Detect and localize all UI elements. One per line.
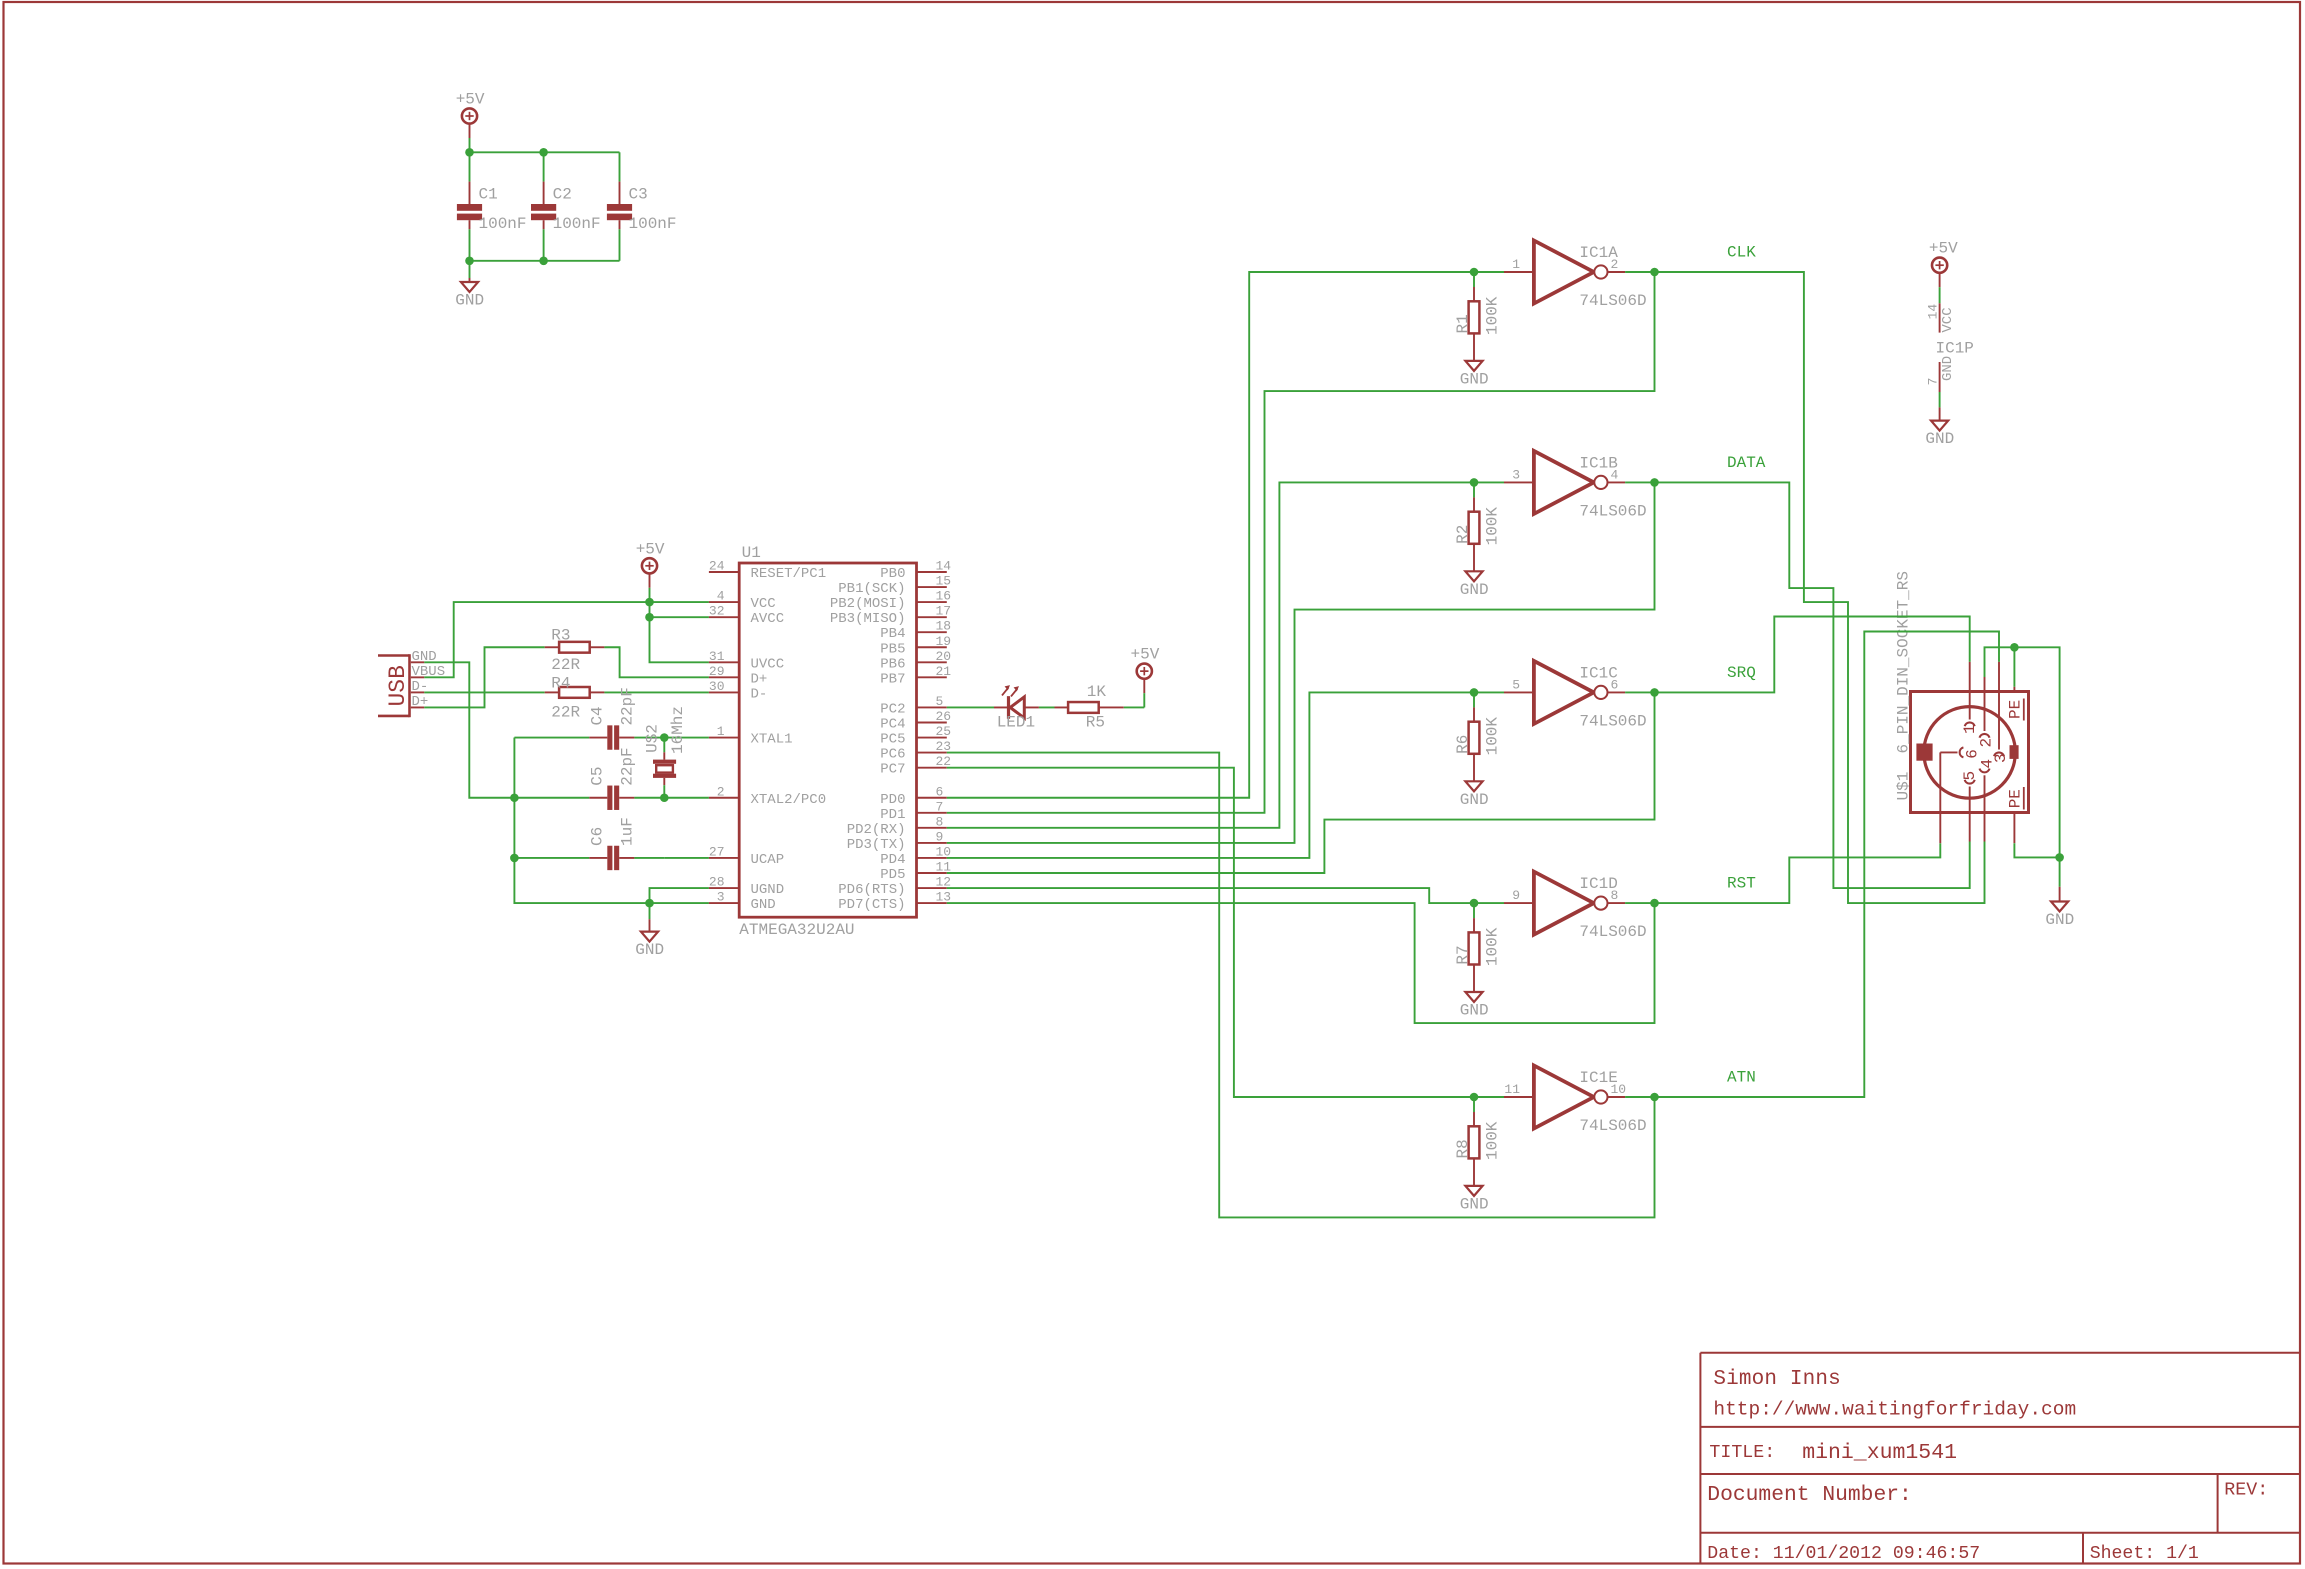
pin DIN6 stub [1939,813,1941,844]
node IC1A input junction [1470,268,1479,277]
svg-text:RESET/PC1: RESET/PC1 [751,566,827,582]
pin DIN PE bottom right [2006,787,2024,843]
svg-text:PB2(MOSI): PB2(MOSI) [830,596,906,612]
wire pin5 to LED [947,706,994,708]
wire USB D+ up to R3 [424,647,544,707]
wire PE bottom to gnd [2014,843,2059,857]
svg-text:SRQ: SRQ [1727,664,1756,682]
node junction AVCC [645,613,654,622]
node IC1A output junction [1650,268,1659,277]
svg-text:http://www.waitingforfriday.co: http://www.waitingforfriday.com [1713,1399,2076,1421]
resistor R1 100K ground [1460,361,1489,389]
wire DATA to DIN pin 5 [1655,482,1970,888]
svg-text:2: 2 [717,784,725,799]
node IC1B output junction [1650,478,1659,487]
svg-text:DATA: DATA [1727,454,1766,472]
ground symbol below MCU [635,932,664,960]
pin 28 UGND (left) [709,875,784,899]
node junction gnd rail at C5 row [510,793,519,802]
pin 24 RESET/PC1 (left) [709,559,826,583]
pin 22 PC7 (right) [880,754,951,778]
capacitor C4 22pF [514,687,664,750]
node IC1C output junction [1650,688,1659,697]
wire CLK to DIN pin 4 [1655,272,1985,903]
wire PD0 to IC1A input [947,272,1474,798]
resistor R6 100K [1454,692,1502,781]
svg-text:4: 4 [1978,759,1996,769]
svg-text:+5V: +5V [1929,240,1958,258]
connector U$1 6 PIN DIN_SOCKET_RS box [1895,571,2029,812]
svg-text:R8: R8 [1454,1139,1472,1158]
pin 10 PD4 (right) [880,844,951,868]
text sheet [2090,1544,2199,1564]
svg-text:PE: PE [2006,700,2024,719]
wire IC1C output sense to PD5 [947,692,1655,873]
pin 17 PB3(MISO) (right) [830,604,951,628]
pin 31 UVCC (left) [709,649,784,673]
resistor R8 100K ground [1460,1186,1489,1214]
wire IC1C input [1474,691,1504,693]
svg-text:27: 27 [709,844,725,859]
pin 6 PD0 (right) [880,784,947,808]
svg-text:1: 1 [1961,724,1979,734]
wire XTAL2 net to pin 2 [664,797,709,799]
resistor R7 100K ground [1460,992,1489,1020]
power IC1P VCC pin [1925,240,1958,333]
pin DIN3 stub [1998,662,2000,692]
svg-text:32: 32 [709,604,725,619]
wire gnd to PE top [2013,647,2015,686]
svg-text:VCC: VCC [1940,307,1956,332]
svg-text:28: 28 [709,875,725,890]
ground symbol cap bank [455,282,484,310]
text title label [1709,1443,1775,1463]
node junction +5V rail at C1 [465,148,474,157]
pin R5 left [1055,706,1069,708]
pin DIN4 stub [1984,813,1986,842]
svg-text:UCAP: UCAP [751,852,785,868]
pin 21 PB7 (right) [880,664,951,688]
svg-text:XTAL1: XTAL1 [751,732,793,748]
svg-text:Sheet: 1/1: Sheet: 1/1 [2090,1544,2199,1564]
resistor R2 100K [1454,482,1502,571]
wire IC1B input [1474,481,1504,483]
svg-text:R4: R4 [551,674,570,692]
wire IC1B output [1625,481,1654,483]
pin DIN 4 marker [1978,759,1996,813]
wire C1 to ground symbol [469,261,471,278]
op-amp inverter IC1D 74LS06D [1504,872,1647,942]
svg-text:PD1: PD1 [880,807,905,823]
svg-text:GND: GND [1925,430,1954,448]
svg-text:5: 5 [1961,771,1979,781]
svg-text:GND: GND [635,941,664,959]
resistor R4 22R [551,674,589,721]
pin gnd stub cap bank [469,278,471,282]
pin gnd stub mcu [649,919,651,931]
pin DIN PE top right [2006,687,2024,721]
svg-text:17: 17 [936,604,952,619]
svg-text:PD0: PD0 [880,792,905,808]
node IC1B input junction [1470,478,1479,487]
op-amp inverter IC1C 74LS06D [1504,661,1647,731]
svg-text:RST: RST [1727,875,1756,893]
svg-text:GND: GND [1940,356,1956,381]
op-amp inverter IC1A 74LS06D [1504,241,1647,311]
svg-text:74LS06D: 74LS06D [1579,502,1646,520]
svg-text:AVCC: AVCC [751,611,785,627]
pin R5 right [1099,706,1124,708]
svg-text:IC1B: IC1B [1579,454,1617,472]
wire IC1A output sense to PD1 [947,272,1655,813]
svg-text:100K: 100K [1483,507,1501,546]
pin 30 D- (left) [709,679,767,703]
svg-text:16Mhz: 16Mhz [669,706,687,754]
svg-text:100K: 100K [1483,1121,1501,1160]
resistor R6 100K ground [1460,781,1489,809]
wire UGND pin 28 [650,888,709,903]
pin DIN 5 marker [1961,771,1979,813]
svg-text:+5V: +5V [636,540,665,558]
svg-text:R7: R7 [1454,945,1472,964]
svg-text:5: 5 [1512,677,1520,692]
svg-text:PE: PE [2006,789,2024,808]
svg-text:U1: U1 [742,544,761,562]
pin USB GND [411,649,437,665]
wire XTAL1 net to pin 1 [664,737,709,739]
wire ATN to DIN pin 3 [1655,632,2000,1098]
svg-text:CLK: CLK [1727,244,1756,262]
pin 16 PB2(MOSI) (right) [830,589,951,613]
node junction XTAL1 at crystal [660,733,669,742]
svg-text:PC5: PC5 [880,732,905,748]
pin 3 GND (left) [709,890,776,914]
node junction DIN gnd bottom [2055,853,2064,862]
led LED1 [994,685,1039,731]
svg-text:100K: 100K [1483,296,1501,335]
svg-text:29: 29 [709,664,725,679]
svg-text:PB0: PB0 [880,566,905,582]
svg-text:LED1: LED1 [997,714,1035,732]
title block frame [1700,1353,2300,1564]
svg-text:Simon Inns: Simon Inns [1713,1368,1841,1391]
wire R3 to MCU D+ pin 29 [604,647,709,677]
pin 32 AVCC (left) [709,604,784,628]
pin 20 PB6 (right) [880,649,951,673]
pin DIN5 stub [1969,813,1971,842]
wire MCU GND down [649,903,651,919]
resistor R1 100K [1454,272,1502,361]
wire PD6 to IC1D input [947,888,1474,903]
svg-text:30: 30 [709,679,725,694]
svg-text:26: 26 [936,709,952,724]
svg-text:R5: R5 [1086,714,1105,732]
svg-text:11: 11 [1504,1082,1520,1097]
svg-text:PB3(MISO): PB3(MISO) [830,611,906,627]
net label CLK [1727,244,1756,262]
svg-text:9: 9 [936,829,944,844]
svg-text:PB6: PB6 [880,656,905,672]
wire +5V down to UVCC pin 31 [650,617,709,662]
pin DIN 1 marker [1961,692,1979,735]
svg-text:PB4: PB4 [880,626,905,642]
resistor R7 100K [1454,903,1502,992]
svg-text:GND: GND [1460,581,1489,599]
crystal U$2 16Mhz [644,706,687,798]
wire IC1C output [1625,691,1654,693]
ic U1 ATMEGA32U2AU box [739,544,916,939]
svg-text:R2: R2 [1454,525,1472,544]
svg-text:+5V: +5V [456,91,485,109]
pin USB VBUS [411,664,445,680]
ground symbol IC1P [1925,421,1954,449]
svg-text:R1: R1 [1454,314,1472,333]
wire ground rail left of crystal caps [514,738,709,904]
node junction GND rail at C1 [465,257,474,266]
pin 12 PD6(RTS) (right) [838,875,951,899]
wire IC1B output sense to PD3 [947,482,1655,843]
svg-text:20: 20 [936,649,952,664]
svg-text:PD5: PD5 [880,867,905,883]
svg-text:4: 4 [717,589,725,604]
wire PD4 to IC1C input [947,692,1474,858]
wire +5V to AVCC [650,602,709,617]
svg-text:C5: C5 [589,767,607,786]
svg-text:6: 6 [1963,749,1981,759]
net label SRQ [1727,664,1756,682]
svg-text:74LS06D: 74LS06D [1579,292,1646,310]
pin DIN 2 marker [1978,692,1996,748]
svg-text:GND: GND [1460,1195,1489,1213]
svg-text:1K: 1K [1087,683,1107,701]
svg-text:22R: 22R [551,703,580,721]
pin 2 XTAL2/PC0 (left) [709,784,826,808]
svg-text:C6: C6 [589,827,607,846]
svg-text:1: 1 [717,724,725,739]
svg-text:IC1C: IC1C [1579,664,1617,682]
svg-text:2: 2 [1978,738,1996,748]
wire UCAP net to pin 27 [664,857,709,859]
text title value [1802,1441,1957,1465]
svg-text:R6: R6 [1454,735,1472,754]
pin R3 left [545,646,559,648]
svg-text:GND: GND [1460,791,1489,809]
svg-text:XTAL2/PC0: XTAL2/PC0 [751,792,827,808]
ic IC1P label [1936,339,1974,357]
svg-text:Document Number:: Document Number: [1707,1483,1911,1507]
svg-text:IC1A: IC1A [1579,244,1618,262]
op-amp inverter IC1B 74LS06D [1504,451,1647,521]
net label ATN [1727,1069,1756,1087]
svg-text:74LS06D: 74LS06D [1579,712,1646,730]
svg-text:PD3(TX): PD3(TX) [847,837,906,853]
pin 26 PC4 (right) [880,709,951,733]
capacitor C2 100nF [531,152,601,260]
text author url [1713,1399,2076,1421]
svg-text:18: 18 [936,619,952,634]
svg-text:PB1(SCK): PB1(SCK) [838,581,905,597]
wire PD2 to IC1B input [947,482,1474,827]
pin DIN1 stub [1969,662,1971,692]
pin 29 D+ (left) [709,664,767,688]
svg-text:100K: 100K [1483,717,1501,756]
svg-text:UGND: UGND [751,882,785,898]
net label RST [1727,875,1756,893]
svg-text:100nF: 100nF [479,215,527,233]
resistor R8 100K [1454,1097,1502,1186]
wire DIN pin2 GND up [1985,647,2060,857]
op-amp inverter IC1E 74LS06D [1504,1066,1647,1136]
pin 15 PB1(SCK) (right) [838,574,951,598]
resistor R2 100K ground [1460,571,1489,599]
wire PC7 to IC1E input [947,768,1474,1097]
wire IC1D output [1625,902,1654,904]
wire bottom rail to GND [470,260,620,262]
power +5V symbol at MCU [636,540,665,602]
text document number [1707,1483,1911,1507]
pin 27 UCAP (left) [709,844,784,868]
svg-text:ATMEGA32U2AU: ATMEGA32U2AU [739,921,854,939]
node IC1E output junction [1650,1093,1659,1102]
svg-text:22pF: 22pF [619,747,637,785]
svg-text:6_PIN_DIN_SOCKET_RS: 6_PIN_DIN_SOCKET_RS [1895,571,1913,753]
pin 25 PC5 (right) [880,724,951,748]
node IC1C input junction [1470,688,1479,697]
svg-text:GND: GND [751,897,776,913]
wire R5 to +5V [1124,706,1145,708]
resistor R3 22R [551,627,589,674]
node junction XTAL2 at crystal [660,793,669,802]
svg-text:PD7(CTS): PD7(CTS) [838,897,905,913]
text author name [1713,1368,1841,1391]
svg-text:7: 7 [1925,378,1940,386]
svg-text:7: 7 [936,799,944,814]
svg-text:1: 1 [1512,257,1520,272]
svg-text:PB7: PB7 [880,671,905,687]
svg-text:9: 9 [1512,888,1520,903]
node junction MCU GND [645,899,654,908]
pin DIN2 stub [1984,677,1986,692]
svg-text:PC7: PC7 [880,762,905,778]
wire SRQ to DIN pin 1 [1655,617,1970,693]
svg-text:74LS06D: 74LS06D [1579,923,1646,941]
svg-text:6: 6 [936,784,944,799]
pin 14 PB0 (right) [880,559,951,583]
svg-text:U$1: U$1 [1895,772,1913,801]
svg-text:19: 19 [936,634,952,649]
pin DIN 3 marker [1992,692,2010,764]
node IC1E input junction [1470,1093,1479,1102]
pin gnd stub DIN [2059,887,2061,902]
wire IC1E output [1625,1096,1654,1098]
pin R3 right [590,646,605,648]
wire USB GND to ground rail [424,662,514,797]
pin USB D+ [411,694,429,710]
svg-text:Date: 11/01/2012 09:46:57: Date: 11/01/2012 09:46:57 [1707,1544,1980,1564]
node junction +5V rail at C2 [539,148,548,157]
pin 19 PB5 (right) [880,634,951,658]
node junction GND rail at C2 [539,257,548,266]
pin 23 PC6 (right) [880,739,951,763]
wire gnd junction down [2059,857,2061,886]
wire RST to DIN pin 6 [1655,843,1941,903]
capacitor C5 22pF [514,747,664,810]
wire R4 to MCU D- pin 30 [604,691,709,693]
svg-text:14: 14 [1925,304,1940,320]
wire USB D- to R4 [424,691,544,693]
pin 5 PC2 (right) [880,694,947,718]
svg-text:C3: C3 [629,185,648,203]
svg-text:GND: GND [455,292,484,310]
svg-text:PD6(RTS): PD6(RTS) [838,882,905,898]
wire IC1A input [1474,271,1504,273]
wire IC1E output sense to PC6 [947,753,1655,1218]
svg-text:22pF: 22pF [619,687,637,725]
text rev label [2224,1481,2268,1501]
ground symbol at DIN [2045,902,2074,930]
svg-text:100nF: 100nF [553,215,601,233]
svg-text:TITLE:: TITLE: [1709,1443,1775,1463]
svg-text:3: 3 [717,890,725,905]
wire LED to R5 [1039,706,1055,708]
power IC1P GND pin [1925,356,1956,421]
power +5V supply symbol (cap bank) [456,91,485,153]
svg-text:UVCC: UVCC [751,656,785,672]
pin R4 left [545,691,559,693]
svg-text:1uF: 1uF [619,817,637,846]
svg-text:U$2: U$2 [644,724,662,753]
svg-text:14: 14 [936,559,952,574]
svg-text:+5V: +5V [1131,646,1160,664]
svg-text:C2: C2 [553,185,572,203]
wire IC1D input [1474,902,1504,904]
power +5V at R5 [1131,646,1160,708]
svg-text:D-: D- [751,686,768,702]
svg-text:PC6: PC6 [880,747,905,763]
svg-text:8: 8 [936,814,944,829]
pin 18 PB4 (right) [880,619,951,643]
svg-text:GND: GND [2045,911,2074,929]
svg-text:REV:: REV: [2224,1481,2268,1501]
svg-text:100K: 100K [1483,927,1501,966]
pin 8 PD2(RX) (right) [847,814,947,838]
node junction gnd rail at C6 row [510,854,519,863]
svg-text:74LS06D: 74LS06D [1579,1117,1646,1135]
pin 7 PD1 (right) [880,799,947,823]
svg-text:GND: GND [1460,1002,1489,1020]
svg-text:C1: C1 [479,185,498,203]
pin 13 PD7(CTS) (right) [838,890,951,914]
node IC1D input junction [1470,899,1479,908]
svg-text:24: 24 [709,559,725,574]
pin 11 PD5 (right) [880,860,951,884]
svg-text:PD4: PD4 [880,852,905,868]
wire IC1A output [1625,271,1654,273]
wire IC1E input [1474,1096,1504,1098]
wire +5V top rail [470,151,620,153]
svg-text:25: 25 [936,724,952,739]
resistor R5 1K [1068,683,1106,732]
svg-text:VCC: VCC [751,596,776,612]
connector USB J1 bracket [378,654,411,717]
svg-text:IC1P: IC1P [1936,339,1974,357]
node junction VCC +5V [645,598,654,607]
svg-text:GND: GND [1460,370,1489,388]
pin 9 PD3(TX) (right) [847,829,947,853]
svg-text:3: 3 [1512,467,1520,482]
svg-text:5: 5 [936,694,944,709]
svg-text:USB: USB [385,665,411,706]
